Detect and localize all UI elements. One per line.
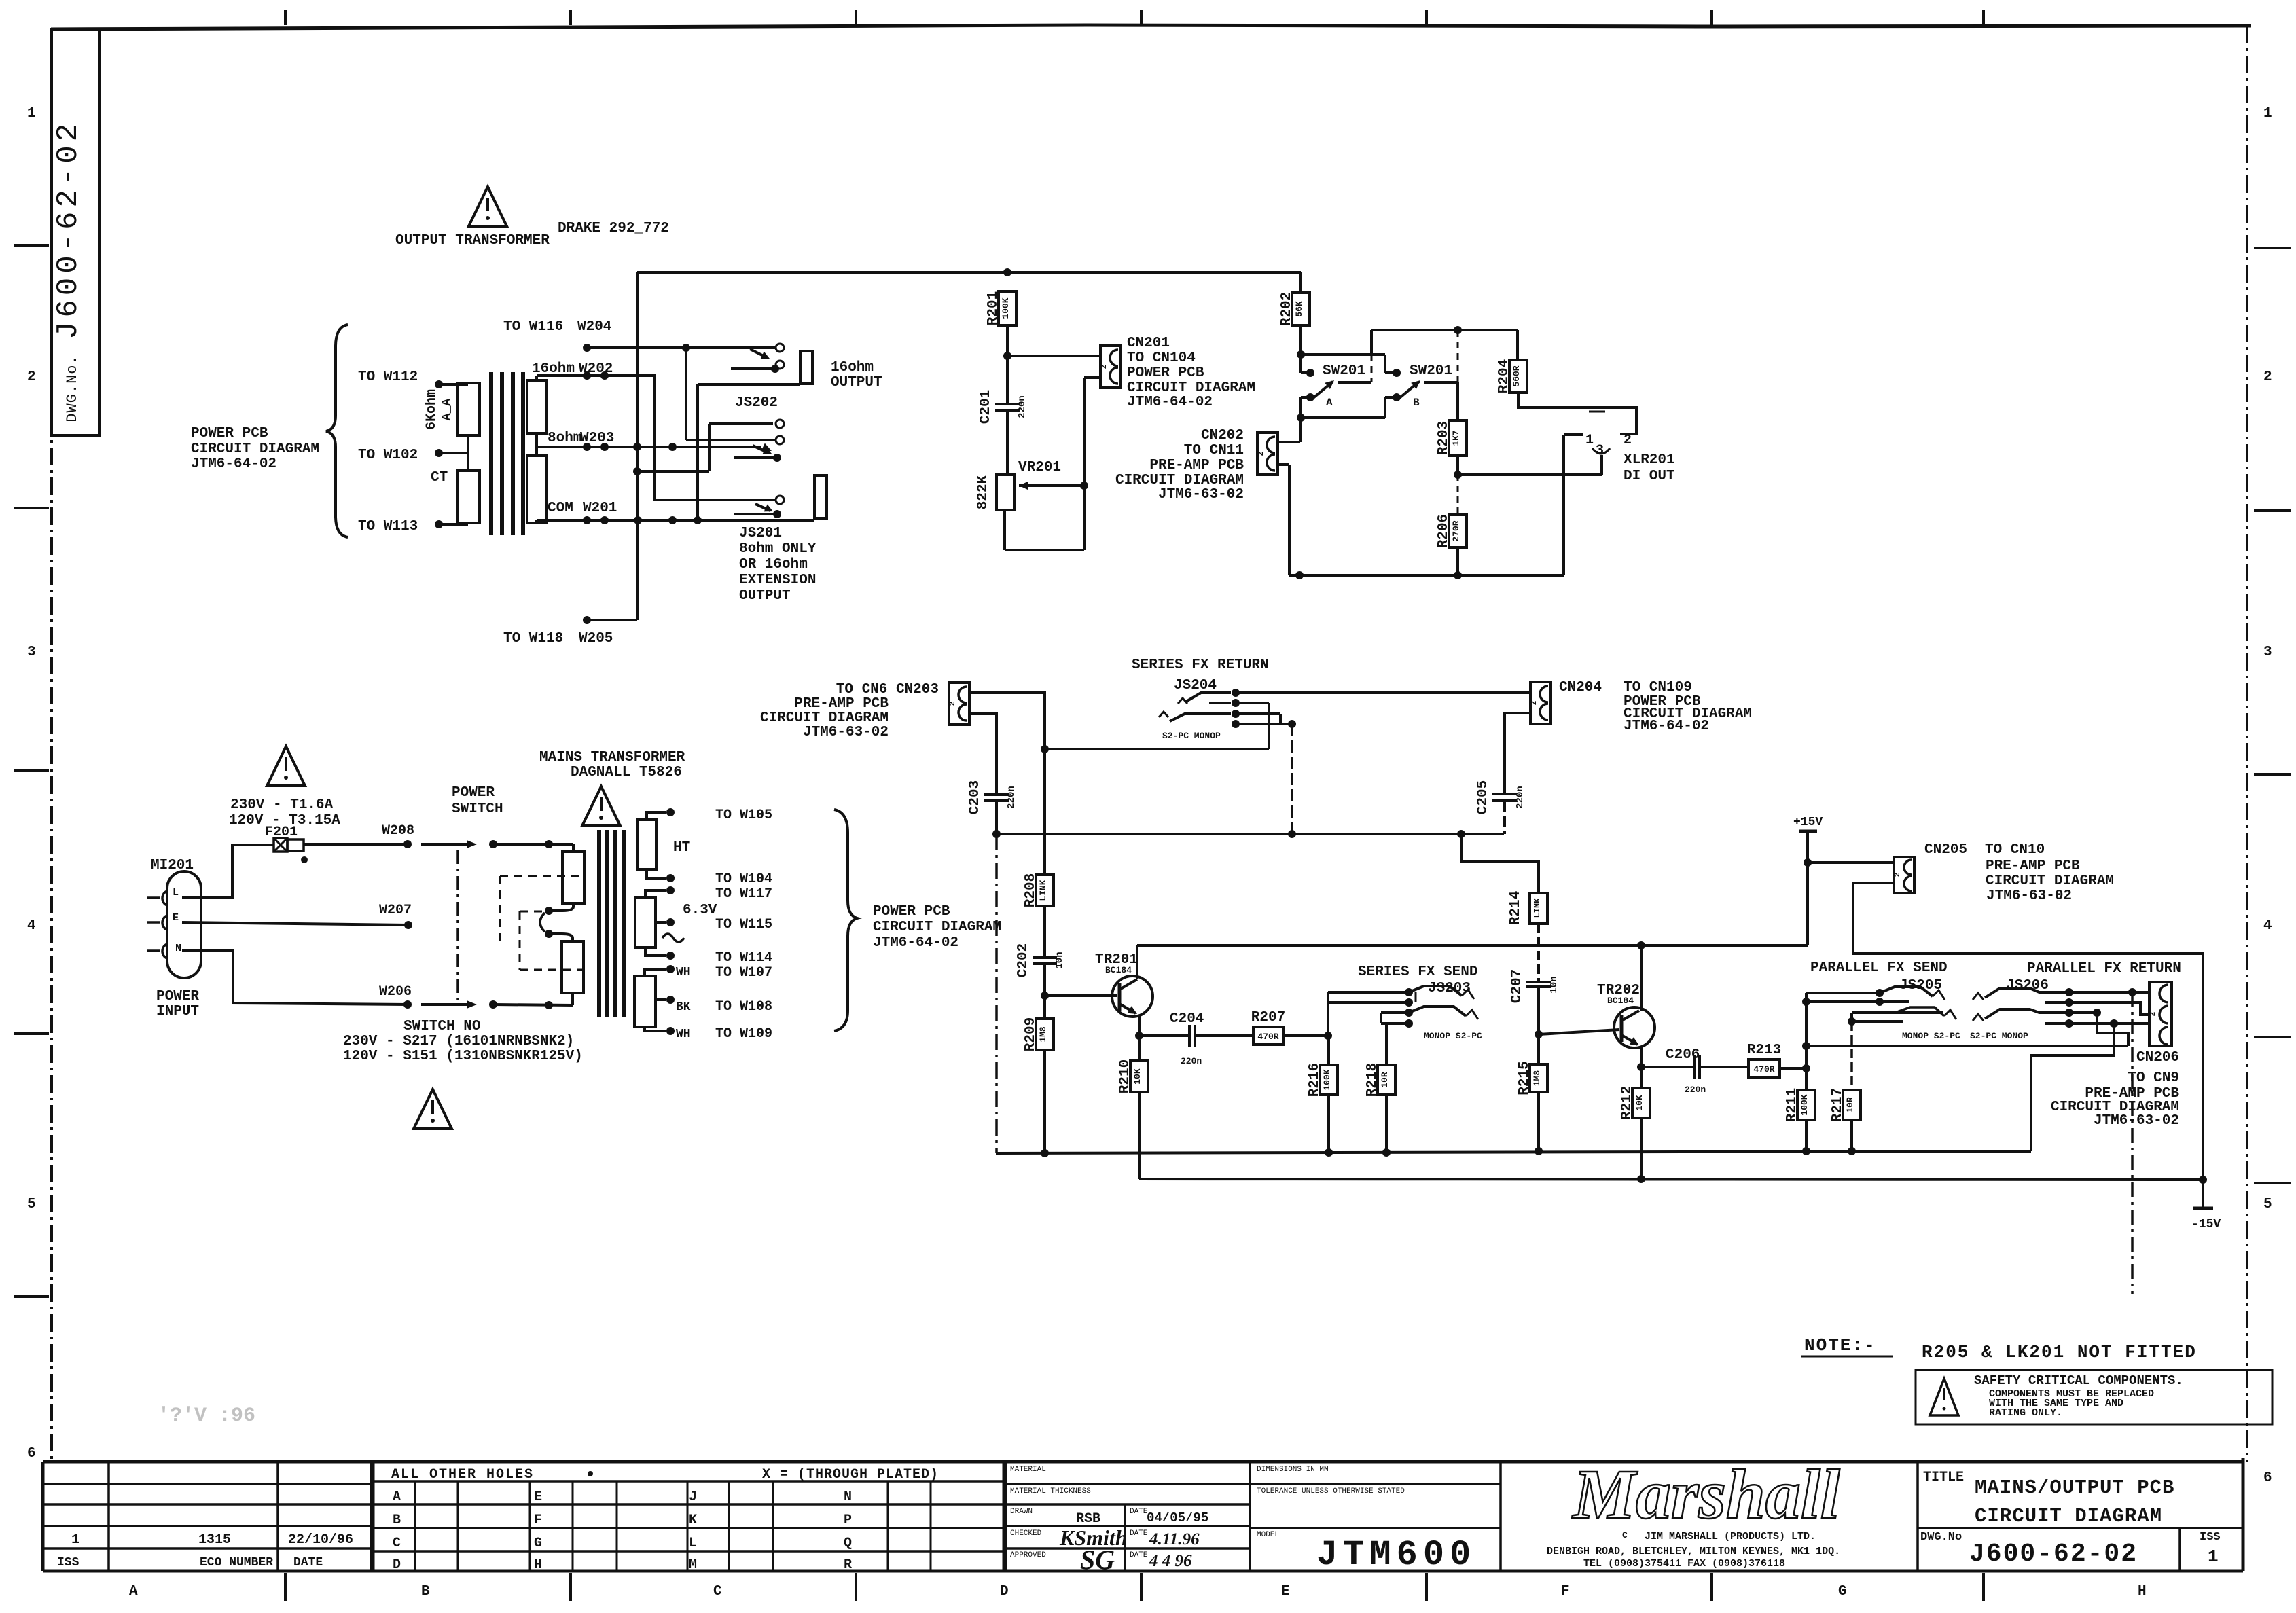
wire emitter to C204	[1139, 1034, 1188, 1037]
svg-text:230V - T1.6A: 230V - T1.6A	[230, 797, 334, 813]
connector CN203	[949, 683, 969, 725]
svg-text:SAFETY CRITICAL COMPONENTS.: SAFETY CRITICAL COMPONENTS.	[1974, 1373, 2183, 1388]
svg-text:1315: 1315	[198, 1532, 231, 1548]
svg-text:10R: 10R	[1380, 1072, 1390, 1088]
svg-text:PARALLEL FX SEND: PARALLEL FX SEND	[1810, 960, 1948, 976]
wire R211 to 0V	[1805, 1120, 1808, 1151]
svg-text:Marshall: Marshall	[1571, 1455, 1840, 1534]
svg-text:JS204: JS204	[1174, 678, 1217, 693]
title cell MAINS/OUTPUT PCB CIRCUIT DIAGRAM	[1918, 1470, 2243, 1569]
svg-text:P: P	[844, 1512, 852, 1528]
svg-text:POWER PCB: POWER PCB	[873, 904, 950, 920]
wire R217 to 0V	[1850, 1120, 1853, 1151]
transistor TR202	[1597, 983, 1655, 1049]
resistor R209	[1023, 1017, 1054, 1051]
wire TR202 collector	[1640, 945, 1643, 1011]
connector XLR201 DI OUT	[1564, 412, 1675, 484]
issue cell	[2180, 1528, 2221, 1571]
zone tick left	[14, 244, 49, 247]
svg-text:C206: C206	[1666, 1047, 1700, 1063]
svg-text:BC184: BC184	[1607, 996, 1634, 1006]
svg-text:100K: 100K	[1001, 297, 1011, 319]
revision table	[43, 1462, 372, 1571]
svg-text:TO CN11: TO CN11	[1184, 443, 1244, 458]
svg-text:ISS: ISS	[57, 1556, 79, 1570]
safety critical components box	[1916, 1370, 2272, 1424]
zone tick bottom	[1140, 1573, 1143, 1601]
wire switch to transformer (neutral)	[489, 1000, 497, 1009]
wire C205 bottom to bus	[1503, 801, 1506, 834]
svg-text:MONOP S2-PC: MONOP S2-PC	[1424, 1031, 1482, 1041]
resistor R216	[1307, 1063, 1338, 1097]
wire bus jog to R214	[1461, 834, 1539, 893]
svg-text:POWER: POWER	[156, 989, 199, 1004]
svg-text:CT: CT	[431, 470, 448, 486]
jack JS204 internals	[1159, 689, 1240, 728]
svg-text:SW201: SW201	[1410, 363, 1452, 379]
voltage selector taps	[540, 903, 573, 941]
resistor R201	[986, 291, 1016, 325]
svg-text:CIRCUIT DIAGRAM: CIRCUIT DIAGRAM	[1975, 1505, 2162, 1527]
resistor R214 link	[1508, 891, 1547, 925]
wire main vertical from top bus	[636, 272, 639, 620]
svg-text:K: K	[689, 1512, 697, 1528]
svg-text:'?'V :96: '?'V :96	[158, 1404, 255, 1428]
svg-text:3: 3	[2263, 645, 2272, 660]
svg-text:H: H	[534, 1557, 542, 1573]
svg-text:SWITCH NO: SWITCH NO	[403, 1019, 480, 1034]
wire CN206 screen dash	[2131, 992, 2134, 1294]
svg-text:D: D	[393, 1557, 401, 1573]
wire C206 to R213	[1700, 1066, 1748, 1068]
wire R215 to 0V	[1537, 1092, 1540, 1151]
svg-text:OUTPUT TRANSFORMER: OUTPUT TRANSFORMER	[395, 233, 550, 249]
power +15V symbol	[1793, 816, 1823, 863]
svg-text:220n: 220n	[1181, 1056, 1202, 1066]
wire C203 to bus	[995, 801, 998, 834]
svg-text:LINK: LINK	[1038, 880, 1048, 901]
switch SW201 B	[1385, 330, 1458, 418]
resistor R217	[1830, 1088, 1861, 1122]
wire CN202 pin1	[1276, 441, 1300, 443]
resistor R213	[1747, 1043, 1781, 1077]
svg-text:6: 6	[27, 1446, 36, 1462]
wire R206 bottom	[1456, 547, 1459, 575]
svg-text:S2-PC MONOP: S2-PC MONOP	[1970, 1031, 2028, 1041]
wire R213 to parallel send node	[1780, 1067, 1806, 1070]
svg-text:W201: W201	[583, 501, 617, 516]
svg-text:R212: R212	[1619, 1086, 1635, 1120]
resistor R210	[1117, 1059, 1148, 1093]
zone tick bottom	[284, 1573, 287, 1601]
svg-text:10K: 10K	[1634, 1095, 1645, 1111]
wire R203 top	[1456, 382, 1459, 420]
wire R218 to 0V	[1385, 1095, 1388, 1153]
svg-text:TO W116: TO W116	[503, 319, 563, 335]
svg-text:DATE: DATE	[1130, 1529, 1148, 1538]
svg-text:TO W115: TO W115	[715, 917, 772, 932]
svg-text:CN204: CN204	[1559, 680, 1602, 695]
svg-text:C207: C207	[1509, 969, 1525, 1003]
svg-text:C202: C202	[1016, 943, 1031, 977]
zone tick top	[1710, 10, 1713, 25]
svg-text:WH: WH	[676, 966, 691, 979]
wire CT tap	[435, 449, 443, 457]
wire R202 to switch	[1299, 325, 1302, 373]
svg-text:JTM600: JTM600	[1316, 1535, 1476, 1575]
border frame top	[51, 25, 2251, 29]
zone tick right	[2254, 509, 2291, 512]
svg-text:100K: 100K	[1799, 1094, 1810, 1115]
wire R214 to C207	[1537, 924, 1540, 982]
svg-text:L: L	[173, 887, 179, 899]
svg-text:W207: W207	[379, 903, 412, 918]
mains inlet MI201	[147, 871, 201, 978]
wire W204	[583, 344, 591, 352]
svg-text:R204: R204	[1496, 359, 1512, 393]
transformer T2 secondary HT winding	[637, 820, 656, 869]
svg-text:A: A	[1326, 397, 1333, 409]
svg-text:R216: R216	[1307, 1063, 1323, 1097]
svg-text:JTM6-63-02: JTM6-63-02	[1158, 487, 1244, 503]
wire top bus	[637, 271, 1301, 274]
svg-text:R217: R217	[1830, 1088, 1846, 1122]
svg-text:SERIES FX RETURN: SERIES FX RETURN	[1132, 657, 1269, 673]
svg-text:TO W108: TO W108	[715, 999, 772, 1015]
svg-text:PRE-AMP PCB: PRE-AMP PCB	[1149, 458, 1244, 473]
svg-text:R206: R206	[1436, 514, 1452, 548]
wire TR202 emitter node	[1640, 1047, 1643, 1067]
wire send node to JS203	[1327, 992, 1329, 1036]
wire R216 to 0V	[1327, 1095, 1330, 1153]
svg-text:COM: COM	[548, 501, 573, 516]
svg-text:SWITCH: SWITCH	[452, 801, 503, 817]
svg-text:TO W112: TO W112	[358, 369, 418, 385]
wire node to R208	[1043, 749, 1046, 875]
wire emitter to R210	[1138, 1036, 1141, 1061]
transformer T1 core	[489, 372, 493, 535]
warning triangle switch	[414, 1089, 452, 1129]
svg-text:22/10/96: 22/10/96	[288, 1532, 353, 1548]
svg-text:120V - S151 (1310NBSNKR125V): 120V - S151 (1310NBSNKR125V)	[343, 1049, 583, 1064]
svg-text:R214: R214	[1508, 891, 1524, 925]
connector CN206	[2149, 982, 2172, 1046]
svg-text:R208: R208	[1023, 873, 1039, 907]
Marshall logo cell	[1501, 1455, 1918, 1571]
svg-text:470R: 470R	[1257, 1032, 1278, 1042]
wire +15V to rail and CN205	[1804, 858, 1812, 867]
svg-text:DWG.No.: DWG.No.	[64, 355, 81, 422]
svg-text:6: 6	[2263, 1470, 2272, 1486]
zone tick top	[569, 10, 572, 25]
svg-text:230V - S217 (16101NRNBSNK2): 230V - S217 (16101NRNBSNK2)	[343, 1034, 574, 1049]
svg-text:CIRCUIT DIAGRAM: CIRCUIT DIAGRAM	[873, 920, 1001, 935]
wire R202 top	[1299, 272, 1302, 293]
svg-text:TO W117: TO W117	[715, 886, 772, 902]
wire R210 to -15V rail	[1138, 1092, 1141, 1179]
transformer T2 primary winding upper	[562, 852, 584, 903]
switch gang dash-dot	[456, 850, 459, 1004]
zone tick bottom	[855, 1573, 857, 1601]
wire XLR pin1 ground	[1562, 435, 1565, 575]
zone tick right	[2254, 1182, 2291, 1184]
svg-text:JTM6-63-02: JTM6-63-02	[1986, 888, 2072, 904]
svg-text:TEL (0908)375411 FAX (0908)376: TEL (0908)375411 FAX (0908)376118	[1583, 1558, 1785, 1570]
connector CN205	[1894, 857, 1914, 893]
svg-text:DATE: DATE	[1130, 1551, 1148, 1559]
svg-text:MATERIAL THICKNESS: MATERIAL THICKNESS	[1010, 1487, 1091, 1496]
wire R204 to XLR pin2	[1518, 393, 1636, 434]
svg-text:DIMENSIONS IN MM: DIMENSIONS IN MM	[1257, 1466, 1329, 1474]
svg-text:W206: W206	[379, 984, 412, 1000]
zone tick top	[1140, 10, 1143, 25]
wire switch output bus	[1371, 329, 1518, 331]
svg-text:R213: R213	[1747, 1043, 1781, 1058]
resistor R203	[1436, 420, 1467, 456]
wire emitter to C206	[1641, 1066, 1693, 1068]
zone tick right	[2254, 1036, 2291, 1038]
svg-text:RSB: RSB	[1076, 1511, 1100, 1527]
brace to power pcb	[326, 325, 348, 537]
svg-text:CHECKED: CHECKED	[1010, 1529, 1042, 1538]
svg-text:10n: 10n	[1054, 952, 1065, 968]
svg-text:RATING ONLY.: RATING ONLY.	[1989, 1407, 2062, 1419]
wire JS206 ring to CN206 pin2	[2069, 1002, 2149, 1015]
warning triangle fuse	[267, 746, 305, 786]
svg-text:F: F	[534, 1512, 542, 1528]
wire base node to R215	[1537, 1034, 1540, 1064]
approvals table	[1005, 1462, 1250, 1575]
svg-text:2: 2	[1100, 365, 1109, 369]
transformer T1 output primary winding lower	[457, 471, 480, 523]
wire W113 to primary	[435, 520, 443, 528]
svg-text:TO CN9: TO CN9	[2128, 1070, 2179, 1086]
resistor R204	[1496, 359, 1527, 393]
svg-text:E: E	[173, 912, 179, 924]
voltage selector dashed linkage	[500, 875, 584, 877]
svg-text:TO W109: TO W109	[715, 1026, 772, 1042]
svg-text:4 4 96: 4 4 96	[1149, 1552, 1192, 1570]
jack JS201 internals	[734, 446, 781, 518]
svg-text:G: G	[534, 1536, 542, 1551]
svg-text:TO W105: TO W105	[715, 808, 772, 823]
svg-text:PARALLEL FX RETURN: PARALLEL FX RETURN	[2027, 961, 2181, 977]
svg-text:8ohm: 8ohm	[548, 431, 581, 446]
svg-text:H: H	[2138, 1584, 2147, 1599]
svg-text:C204: C204	[1170, 1011, 1204, 1027]
svg-text:2: 2	[1530, 701, 1539, 706]
svg-text:SG: SG	[1080, 1544, 1115, 1575]
wire R208 to C202	[1043, 906, 1046, 958]
connector CN202	[1257, 433, 1278, 475]
svg-text:JTM6-64-02: JTM6-64-02	[191, 456, 276, 472]
wire 16ohm W202	[535, 376, 538, 380]
svg-text:CN206: CN206	[2136, 1050, 2179, 1066]
svg-text:1: 1	[2263, 106, 2272, 122]
resistor R211	[1784, 1088, 1815, 1122]
svg-text:JS201: JS201	[739, 526, 782, 541]
svg-text:DATE: DATE	[1130, 1508, 1148, 1516]
wire node to R209	[1043, 996, 1046, 1019]
jack JS206 contacts	[1973, 988, 2073, 1028]
svg-text:10n: 10n	[1549, 976, 1560, 993]
svg-text:SERIES FX SEND: SERIES FX SEND	[1358, 964, 1477, 980]
svg-text:POWER PCB: POWER PCB	[1127, 365, 1204, 381]
svg-text:LINK: LINK	[1532, 898, 1542, 918]
wire switch to transformer (live)	[489, 840, 497, 848]
svg-text:10K: 10K	[1132, 1068, 1143, 1085]
svg-text:+15V: +15V	[1793, 816, 1823, 829]
wire R212 to -15V	[1640, 1118, 1643, 1179]
resistor R208	[1023, 873, 1054, 907]
zone tick left	[14, 1295, 49, 1298]
jack contact 16ohm ext	[776, 496, 784, 504]
warning triangle output transformer	[469, 187, 507, 226]
switch SW201 A	[1301, 330, 1385, 409]
svg-text:R202: R202	[1279, 292, 1295, 326]
svg-text:R218: R218	[1365, 1063, 1380, 1097]
svg-text:C203: C203	[967, 780, 983, 814]
svg-text:220n: 220n	[1515, 786, 1526, 809]
svg-text:C: C	[393, 1536, 401, 1551]
svg-text:1: 1	[1585, 433, 1594, 448]
svg-text:C: C	[713, 1584, 722, 1599]
wire FX return bus	[997, 833, 1504, 835]
wire TR201 collector to +15V rail	[1136, 945, 1138, 979]
potentiometer VR201	[975, 460, 1084, 510]
svg-text:R209: R209	[1023, 1017, 1039, 1051]
svg-text:-15V: -15V	[2191, 1218, 2221, 1231]
svg-text:CIRCUIT DIAGRAM: CIRCUIT DIAGRAM	[191, 441, 319, 457]
wire neutral W206	[182, 951, 408, 1004]
svg-text:TO CN10: TO CN10	[1985, 842, 2045, 858]
svg-text:JTM6-63-02: JTM6-63-02	[2094, 1113, 2179, 1129]
svg-text:1K7: 1K7	[1451, 430, 1461, 446]
svg-text:DAGNALL T5826: DAGNALL T5826	[571, 765, 682, 780]
DWG number box top-left	[52, 29, 100, 435]
svg-text:DRAKE 292_772: DRAKE 292_772	[558, 221, 669, 236]
wire C205 top to CN204 pin2	[1505, 713, 1530, 794]
svg-text:CIRCUIT DIAGRAM: CIRCUIT DIAGRAM	[1115, 473, 1244, 488]
svg-text:56K: 56K	[1294, 301, 1304, 317]
tolerance block and JTM600 model cell	[1250, 1466, 1501, 1575]
svg-text:R207: R207	[1251, 1010, 1285, 1026]
holes table	[372, 1462, 1005, 1573]
svg-text:1: 1	[2208, 1546, 2219, 1567]
svg-text:PRE-AMP PCB: PRE-AMP PCB	[1986, 858, 2080, 874]
wire CN203 pin2 to C203	[969, 714, 997, 795]
svg-text:5: 5	[27, 1197, 36, 1212]
svg-text:NOTE:-: NOTE:-	[1804, 1335, 1876, 1356]
svg-text:TO W104: TO W104	[715, 871, 772, 887]
zone tick top	[284, 10, 287, 25]
jack JS203 contacts	[1328, 986, 1478, 1028]
svg-text:6Kohm: 6Kohm	[424, 389, 440, 430]
wire CN202 pin2	[1276, 463, 1289, 466]
svg-text:W208: W208	[382, 823, 414, 839]
zone tick left	[14, 507, 49, 509]
wire C202 to base node	[1043, 964, 1046, 996]
svg-text:270R: 270R	[1451, 520, 1461, 541]
wire CN203 pin1 to node	[969, 693, 1045, 749]
svg-text:MODEL: MODEL	[1257, 1531, 1279, 1539]
wire R207 to send node	[1283, 1034, 1328, 1037]
svg-text:C201: C201	[978, 390, 994, 424]
svg-text:TO CN109: TO CN109	[1624, 680, 1692, 695]
wire JS203 switch to R218	[1385, 1023, 1388, 1065]
brace to power pcb (mains)	[834, 810, 857, 1031]
svg-text:CIRCUIT DIAGRAM: CIRCUIT DIAGRAM	[1127, 380, 1255, 396]
border frame left (dash-dot)	[50, 29, 53, 1462]
transformer T1 output primary winding upper	[457, 383, 480, 435]
svg-text:R201: R201	[986, 291, 1001, 325]
svg-text:WH: WH	[676, 1028, 691, 1041]
svg-text:2: 2	[949, 702, 957, 706]
wire node to R211	[1805, 1068, 1808, 1090]
svg-text:XLR201: XLR201	[1624, 452, 1675, 468]
wire -15V rail	[1139, 1179, 2203, 1180]
wire earth W207	[182, 922, 408, 925]
power -15V symbol	[2191, 1180, 2221, 1231]
jack JS201 body	[814, 475, 827, 518]
wire JS204 switch to node	[1236, 702, 1269, 704]
zone tick left	[14, 769, 49, 772]
svg-text:C205: C205	[1475, 780, 1491, 814]
svg-text:5: 5	[2263, 1197, 2272, 1212]
resistor R205 not fitted (dashed)	[1457, 475, 1459, 515]
capacitor C206	[1666, 1047, 1706, 1095]
svg-text:220n: 220n	[1017, 395, 1028, 418]
svg-text:Q: Q	[844, 1536, 852, 1551]
svg-text:120V - T3.15A: 120V - T3.15A	[229, 813, 340, 829]
svg-text:2: 2	[1624, 433, 1632, 448]
svg-text:DRAWN: DRAWN	[1010, 1508, 1033, 1516]
wire return normalling to JS204	[1045, 748, 1269, 750]
wire CN205 pin1 supply loop	[1853, 883, 2203, 1180]
svg-text:G: G	[1838, 1584, 1847, 1599]
svg-text:CIRCUIT DIAGRAM: CIRCUIT DIAGRAM	[760, 710, 889, 726]
wire W205	[583, 616, 591, 624]
svg-text:B: B	[393, 1512, 401, 1528]
transformer T2 primary winding lower	[562, 941, 584, 993]
jack JS202 body	[800, 351, 812, 384]
svg-text:CN201: CN201	[1127, 336, 1170, 351]
svg-text:B: B	[1413, 397, 1420, 409]
connector CN201	[1100, 346, 1121, 388]
wire VR201 bottom	[1003, 509, 1006, 550]
transformer T2 secondary heater winding	[634, 976, 656, 1027]
capacitor C203	[967, 780, 1017, 814]
svg-text:A: A	[129, 1584, 138, 1599]
svg-text:POWER PCB: POWER PCB	[191, 426, 268, 441]
fuse F201	[265, 824, 308, 863]
svg-text:MAINS TRANSFORMER: MAINS TRANSFORMER	[539, 750, 685, 765]
wire C204 to R207	[1195, 1034, 1253, 1037]
svg-text:APPROVED: APPROVED	[1010, 1551, 1046, 1559]
wire emitter to R212	[1640, 1067, 1643, 1088]
wire R201 to C201	[1006, 325, 1009, 404]
svg-text:E: E	[1281, 1584, 1290, 1599]
svg-text:BC184: BC184	[1105, 965, 1132, 975]
zone tick left	[14, 1032, 49, 1035]
svg-text:2: 2	[27, 369, 36, 385]
svg-text:J600-62-02: J600-62-02	[1969, 1540, 2138, 1569]
wire send node to JS205	[1805, 993, 1808, 1068]
svg-text:DWG.No: DWG.No	[1920, 1531, 1962, 1544]
wire SW201 pole bus	[1299, 397, 1302, 442]
wire JS206 tip to CN206 pin1	[2069, 991, 2149, 994]
svg-text:TOLERANCE UNLESS OTHERWISE: TOLERANCE UNLESS OTHERWISE STATED	[1257, 1487, 1405, 1496]
